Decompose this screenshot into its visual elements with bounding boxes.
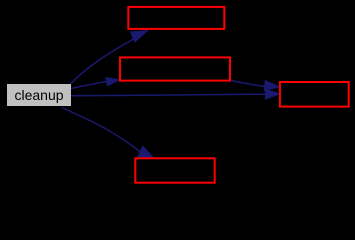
node: bottom red box (135, 158, 214, 182)
node: middle red box (120, 57, 230, 80)
edge cleanup->right box (71, 94, 266, 96)
svg-text:cleanup: cleanup (14, 87, 63, 103)
node cleanup (gray) (7, 84, 71, 106)
node: right red box (280, 82, 349, 107)
arrowhead cleanup->bottom (138, 146, 154, 158)
arrowhead cleanup->top (131, 31, 148, 42)
edge cleanup->bottom box (62, 108, 141, 153)
edge cleanup->middle box (71, 82, 107, 89)
edge cleanup->top box (70, 39, 134, 85)
arrowhead cleanup->right (265, 89, 280, 99)
arrowhead cleanup->middle (106, 78, 120, 86)
arrowhead middle->right (264, 81, 279, 91)
edge middle box->right box (231, 81, 266, 87)
node: top red box (128, 7, 224, 29)
